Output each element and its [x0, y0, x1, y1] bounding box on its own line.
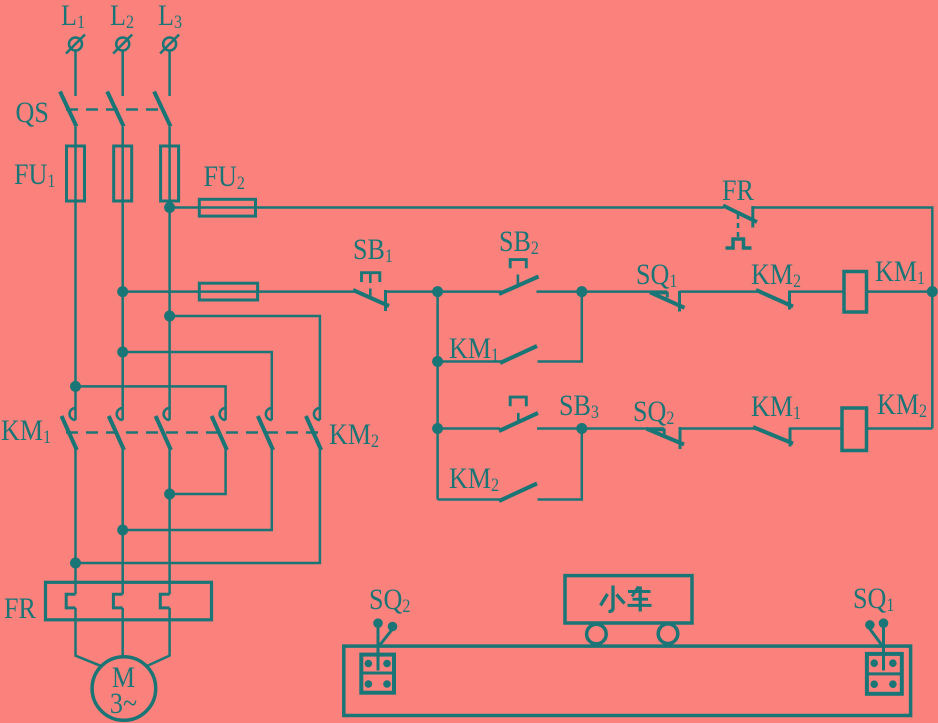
- node dot join c4-L3: [164, 489, 175, 500]
- fuse FU1 b: [114, 146, 132, 201]
- button SB1 blade: [353, 290, 389, 306]
- contact main 4 hook: [220, 408, 226, 420]
- contact main 3 blade: [156, 416, 171, 450]
- node dot join c6-L1: [70, 558, 81, 569]
- wire KM1 NC to coil KM2: [790, 427, 842, 430]
- wire SQ2 to KM1 NC: [680, 427, 755, 430]
- wire L1 drop to QS: [74, 51, 77, 97]
- wire L2 drop to QS: [121, 51, 124, 97]
- contact main 2 hook: [117, 408, 123, 420]
- wire KM2 aux right: [538, 429, 582, 500]
- FR heater 2: [113, 594, 122, 608]
- node dot bus rung1: [927, 286, 938, 297]
- wire L3 QS to contact: [168, 127, 171, 420]
- SQ1 device box divider: [867, 672, 902, 675]
- FR thermal element bump: [726, 239, 752, 248]
- contact KM1 NC blade: [753, 427, 793, 444]
- track rectangle: [344, 646, 911, 715]
- wire rung2 left: [438, 427, 500, 430]
- QS linkage dashed: [66, 108, 165, 111]
- contact KM2 NO aux blade: [499, 484, 537, 502]
- button SB1 stem: [369, 274, 372, 283]
- limit switch SQ1 tick: [678, 291, 681, 312]
- contact main 1 hook: [70, 408, 76, 420]
- node dot aux KM1: [432, 356, 443, 367]
- relay FR box: [46, 582, 212, 620]
- contact main 1 blade: [62, 416, 77, 450]
- cart wheel left: [587, 624, 607, 644]
- wire top control feed: [170, 206, 724, 209]
- contact KM2 NC blade: [756, 290, 793, 307]
- contact main 2 blade: [109, 416, 124, 450]
- wire SB2 to SQ1: [537, 290, 668, 293]
- contact main 6 hook: [314, 408, 320, 420]
- wire contact4 down to L3: [170, 450, 226, 495]
- wire heater1 to motor: [76, 608, 102, 666]
- node dot rung2 left: [432, 423, 443, 434]
- node L3 terminal: [160, 35, 179, 54]
- limit switch SQ1 device lever ball 2: [879, 618, 889, 628]
- node dot join c5-L2: [117, 525, 128, 536]
- limit switch SQ2 device lever ball 1: [373, 618, 383, 628]
- wire contact3 down: [168, 450, 171, 595]
- fuse FU2 upper: [199, 199, 255, 216]
- wire SB3 to SQ2: [537, 427, 664, 430]
- wire crossover L2 to contact5: [123, 352, 272, 420]
- svg-text:FR: FR: [4, 592, 36, 625]
- button SB2 NO cap: [510, 260, 526, 269]
- FR heater 3: [160, 594, 169, 608]
- button SB3 blade: [499, 413, 538, 431]
- SQ2 device stem: [377, 626, 380, 671]
- cart body: [565, 576, 692, 623]
- button SB2 stem: [517, 275, 520, 285]
- wire L3 drop to QS: [168, 51, 171, 97]
- node dot rung1 x437: [432, 286, 443, 297]
- contact FR NC blade: [723, 206, 757, 223]
- contact main 5 hook: [266, 408, 272, 420]
- switch QS pole 2: [107, 92, 124, 127]
- limit switch SQ1 NC wedge: [651, 293, 668, 298]
- wire FR to right bus: [753, 208, 933, 429]
- limit switch SQ1 blade: [650, 292, 685, 308]
- wire SQ1 to KM2 NC: [680, 290, 759, 293]
- node dot rung1 x582: [576, 286, 587, 297]
- motor M circle: [92, 657, 156, 721]
- contact main 6 blade: [306, 416, 321, 450]
- button SB1 tick: [384, 290, 387, 311]
- FR heater 1: [66, 594, 75, 608]
- SQ2 device lever diagonal: [379, 629, 393, 646]
- SQ1 device lever diagonal: [870, 629, 883, 646]
- node dot rung2 x582: [576, 423, 587, 434]
- wire coil KM1 to bus: [867, 290, 933, 293]
- node dot L3 x-over: [164, 311, 175, 322]
- contact KM2 NC tick: [788, 291, 791, 310]
- node dot L2 x-over: [117, 347, 128, 358]
- svg-text:FR: FR: [722, 174, 754, 207]
- SQ2 device box divider: [361, 672, 394, 675]
- wire contact5 down to L2: [123, 450, 272, 531]
- button SB1 NC cap: [362, 273, 380, 282]
- limit switch SQ1 device lever ball 1: [865, 620, 875, 630]
- contact main 5 blade: [258, 416, 273, 450]
- SQ1 device box: [867, 654, 902, 694]
- node dot L1 x-over: [70, 381, 81, 392]
- contact KM1 NC tick: [789, 428, 792, 447]
- wire crossover L1 to contact4: [76, 386, 226, 420]
- button SB2 blade: [499, 277, 539, 295]
- SQ2 device box: [361, 655, 394, 693]
- node dot FU2 tap: [164, 202, 175, 213]
- wire L2 QS to contact: [121, 127, 124, 420]
- wire heater2 to motor: [121, 608, 124, 657]
- contact FR tick: [751, 206, 754, 228]
- fuse FU2 lower: [199, 283, 257, 300]
- cart wheel right: [658, 624, 678, 644]
- FR actuator dashed stem: [737, 214, 740, 238]
- SQ2 device dots: [365, 660, 391, 688]
- limit switch SQ2 device lever ball 2: [388, 622, 398, 632]
- fuse FU1 a: [67, 146, 85, 201]
- fuse FU1 c: [161, 146, 179, 201]
- switch QS pole 3: [154, 92, 171, 127]
- contact main 4 blade: [212, 416, 227, 450]
- wire control left bus: [436, 292, 439, 500]
- wire KM1 aux left: [438, 360, 502, 363]
- limit switch SQ2 tick: [679, 427, 682, 449]
- node L1 terminal: [66, 35, 85, 54]
- wire contact6 down to L1: [76, 450, 320, 564]
- KM linkage dashed: [66, 431, 319, 434]
- wire L1 QS to contact: [74, 127, 77, 420]
- wire SB1 to SB2: [386, 290, 502, 293]
- contact KM1 NO aux blade: [500, 346, 537, 363]
- wire contact2 down: [121, 450, 124, 595]
- node dot rung1 L2 tap: [117, 286, 128, 297]
- SQ1 device dots: [870, 659, 896, 688]
- wire KM1 aux right: [538, 292, 582, 362]
- wire crossover L3 to contact6: [170, 316, 320, 420]
- button SB3 stem: [517, 413, 520, 421]
- contact main 3 hook: [164, 408, 170, 420]
- wire KM2 NC to coil KM1: [790, 290, 845, 293]
- svg-text:QS: QS: [16, 96, 49, 129]
- wire rung1 left: [123, 290, 355, 293]
- limit switch SQ2 NC wedge: [648, 430, 665, 435]
- button SB3 NO cap: [510, 397, 526, 406]
- limit switch SQ2 blade: [647, 429, 685, 445]
- SQ1 device stem: [882, 626, 885, 671]
- wire contact1 down: [74, 450, 77, 595]
- coil KM2: [842, 408, 867, 451]
- wire KM2 aux left: [438, 498, 500, 501]
- svg-text:3~: 3~: [110, 687, 137, 720]
- switch QS pole 1: [60, 92, 77, 127]
- node L2 terminal: [113, 35, 132, 54]
- wire coil KM2 to bus: [867, 427, 933, 430]
- coil KM1: [844, 272, 867, 313]
- label cart 小车 drawn strokes: [601, 586, 652, 612]
- wire heater3 to motor: [146, 608, 169, 666]
